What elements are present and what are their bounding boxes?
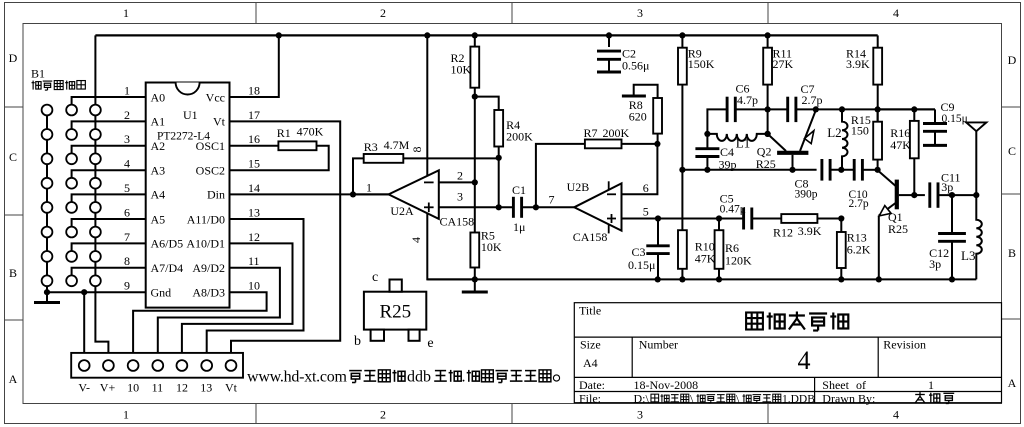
svg-text:R25: R25 [888,222,908,236]
svg-text:4: 4 [893,408,899,422]
svg-text:10K: 10K [481,240,502,254]
svg-text:0.56μ: 0.56μ [622,59,649,73]
svg-text:R25: R25 [756,157,776,171]
svg-text:6.2K: 6.2K [847,243,871,257]
resistor R5 10K [470,229,502,280]
resistor R15 150 [851,109,882,169]
wire IC pin18 Vcc to bus [230,35,279,97]
svg-text:A4: A4 [583,356,598,370]
wire R4 node down to U2A pin3 [498,158,500,208]
node U2A pin2 junction [472,179,478,185]
antenna [966,122,986,195]
svg-text:B: B [9,266,17,280]
connector B2 CT-7 [71,353,243,378]
svg-text:2: 2 [380,6,386,20]
svg-text:2: 2 [124,108,130,122]
svg-text:D:\: D:\ [634,391,650,405]
node R12/R13 junction [838,215,844,221]
inductor L2 [827,109,847,169]
IC U1 PT2272-L4 [146,83,230,308]
svg-text:1: 1 [123,6,129,20]
svg-text:7: 7 [124,230,130,244]
svg-text:6: 6 [643,181,649,195]
svg-text:11: 11 [152,381,164,395]
wire C6/C7 row [707,109,935,133]
connector B2 labels [78,381,237,395]
wire IC pin12 to B2 12 [182,243,293,365]
svg-text:C3: C3 [632,245,646,259]
svg-text:File:: File: [579,391,601,405]
svg-text:1μ: 1μ [513,220,525,234]
resistor R3 4.7M [364,138,410,163]
svg-text:.: . [462,368,466,385]
capacitor C3 0.15u [628,219,670,280]
connector B1 labels [31,67,85,91]
svg-text:2.7p: 2.7p [802,93,823,107]
svg-text:470K: 470K [297,125,324,139]
svg-text:L1: L1 [736,136,750,151]
svg-text:A7/D4: A7/D4 [151,261,184,275]
svg-text:1.DDB: 1.DDB [782,393,815,405]
svg-text:150K: 150K [688,57,715,71]
svg-text:620: 620 [629,110,647,124]
svg-text:16: 16 [248,132,260,146]
wire U2A pin2 [439,181,475,183]
resistor R8 620 [629,98,662,144]
svg-text:18-Nov-2008: 18-Nov-2008 [634,378,699,392]
resistor R10 47K [678,230,716,279]
svg-text:OSC2: OSC2 [196,164,225,178]
svg-text:5: 5 [124,181,130,195]
svg-text:of: of [856,378,866,392]
capacitor C5 0.47u [720,192,752,230]
node R6 top junction [716,215,722,221]
capacitor C2 0.56u [597,35,649,72]
svg-text:A: A [1008,376,1017,390]
wires IC pins1-8 to B1 switches [72,97,146,275]
node C1/R7 junction [533,204,539,210]
wire IC pin13 to B2 13 [207,219,304,366]
wire mid rail to C8 [682,169,816,171]
node gnd row dots [44,289,87,295]
wire R7 left vertical [536,144,585,207]
svg-text:U2B: U2B [567,180,590,194]
resistor R1 470K [277,125,324,151]
svg-text:A1: A1 [151,115,166,129]
connector B1 pin circles [42,105,101,287]
svg-text:0.15μ: 0.15μ [942,113,968,125]
svg-text:Size: Size [580,338,601,352]
wire R9 down to mid rail [681,85,683,231]
transistor Q1 R25 [878,170,915,279]
inductor L1 [707,134,767,151]
ground bar above R8 [622,85,658,98]
wire IC pin9 Gnd row [47,291,146,293]
resistor R12 3.9K [773,214,822,239]
IC U1 pin numbers [124,83,260,292]
svg-text:200K: 200K [506,130,533,144]
inductor L3 [961,195,982,279]
node bus junction dots [276,32,771,38]
svg-text:C1: C1 [512,183,526,197]
svg-text:3: 3 [637,408,643,422]
svg-text:10: 10 [248,279,260,293]
svg-text:Din: Din [207,188,225,202]
capacitor C1 1u [512,183,526,234]
svg-text:R25: R25 [380,302,412,323]
svg-text:1: 1 [124,83,130,97]
svg-text:A: A [9,372,18,386]
svg-text:L3: L3 [961,248,975,263]
svg-text:4: 4 [893,6,899,20]
svg-text:2.7p: 2.7p [849,198,869,210]
svg-text:390p: 390p [795,189,818,201]
svg-text:C: C [1008,144,1016,158]
capacitor C12 3p [929,195,966,279]
svg-text:Vt: Vt [225,381,238,395]
svg-text:120K: 120K [725,254,752,268]
svg-text:5: 5 [643,205,649,219]
svg-text:13: 13 [248,205,260,219]
svg-text:B1: B1 [31,67,45,81]
node L1 ends [704,131,770,137]
wire IC pin16 OSC1 to R1 [230,145,279,147]
watermark text [247,368,560,385]
svg-text:3: 3 [124,132,130,146]
wire C1 to U2B pin7 [522,206,575,208]
svg-text:b: b [354,334,361,349]
wire IC pin10 to B2 10 [133,292,267,365]
node pin3/R4 junction [496,204,502,210]
svg-text:13: 13 [200,381,212,395]
node R5 bottom junction [472,276,478,282]
svg-text:1: 1 [366,181,372,195]
file path CJK 自制电路\信号电路\信号电路1.DDB [651,391,815,405]
svg-text:V-: V- [78,381,90,395]
svg-text:47K: 47K [695,252,716,266]
transistor package drawing R25 [364,280,426,341]
svg-text:A9/D2: A9/D2 [192,261,225,275]
svg-text:R1: R1 [277,126,291,140]
wire C8 to C10 [830,169,854,171]
node Q1 base/R16 junction [911,192,917,198]
svg-text:1: 1 [928,378,934,392]
node antenna junction [973,192,979,198]
svg-text:Title: Title [579,304,601,318]
svg-text:4.7p: 4.7p [737,93,758,107]
node C6/C7 row junctions [765,106,918,112]
wire IC pin11 to B2 11 [158,268,280,366]
resistor R11 27K [763,35,793,84]
svg-text:12: 12 [248,230,260,244]
svg-text:47K: 47K [890,138,911,152]
svg-text:8: 8 [124,254,130,268]
svg-text:OSC1: OSC1 [196,139,225,153]
capacitor C7 2.7p [788,82,823,122]
svg-text:U2A: U2A [390,204,414,218]
wire R3 output node vertical [353,158,364,194]
svg-text:17: 17 [248,108,260,122]
wire R2-R5 vertical [474,97,476,233]
resistor R14 3.9K [846,35,882,121]
wire B1 col1 common [46,105,48,293]
svg-text:R7: R7 [584,126,598,140]
svg-text:R3: R3 [364,140,378,154]
svg-text:7: 7 [549,193,555,207]
svg-text:e: e [427,336,433,351]
svg-text:U1: U1 [183,108,198,122]
svg-text:Vt: Vt [213,115,226,129]
svg-text:3: 3 [637,6,643,20]
capacitor C9 0.15u with ground [923,100,968,145]
wire R12 to R13 node [817,218,841,220]
svg-text:8: 8 [410,147,424,153]
svg-text:11: 11 [248,254,260,268]
svg-text:B: B [1008,246,1016,260]
svg-text:D: D [9,51,18,65]
op-amp U2A CA158 [366,147,474,244]
node U2A output junction [350,191,356,197]
svg-text:150: 150 [851,124,869,138]
node bottom rail junctions [655,276,956,282]
wire Q1 base row [914,194,925,196]
wire U2A pin3 to C1 [439,206,514,208]
svg-text:3p: 3p [929,257,941,271]
svg-text:9: 9 [124,279,130,293]
svg-text:L2: L2 [827,125,841,140]
title text 遥控接收板 [746,312,848,331]
svg-text:C: C [9,150,17,164]
svg-text:27K: 27K [773,57,794,71]
wire R3 right to R4 bottom [403,157,498,159]
node C12 top junction [949,192,955,198]
svg-text:4.7M: 4.7M [384,138,410,152]
svg-text:A2: A2 [151,139,166,153]
svg-text:3.9K: 3.9K [798,224,822,238]
svg-text:R12: R12 [773,226,793,240]
svg-text:A3: A3 [151,164,166,178]
wire R1 to IC pin15 OSC2 [230,146,329,170]
wire R7 right / R8 to U2B pin6 [622,144,658,194]
svg-text:A11/D0: A11/D0 [187,212,225,226]
node mid rail junctions [789,167,880,173]
svg-text:Revision: Revision [883,338,926,352]
svg-text:www.hd-xt.com: www.hd-xt.com [247,368,348,385]
node R2 bottom junction [472,94,478,100]
wire U2A output pin1 [353,193,389,195]
svg-text:3.9K: 3.9K [846,57,870,71]
title block text [579,304,934,406]
capacitor C8 390p [795,159,831,201]
resistor R16 47K [890,109,919,195]
resistor R9 150K [678,35,715,84]
svg-text:Date:: Date: [579,378,605,392]
svg-text:4: 4 [409,237,423,243]
wire B1 common column (col3) down to B2 V+ [95,35,108,365]
svg-text:0.15μ: 0.15μ [628,258,655,272]
capacitor C11 3p [930,171,961,208]
wire U2A pin8 to bus [426,35,428,175]
svg-text:10K: 10K [451,63,472,77]
title block [574,303,1001,403]
svg-text:10: 10 [127,381,139,395]
resistor R7 200K [584,126,630,148]
svg-text:3p: 3p [941,180,953,194]
svg-text:15: 15 [248,157,260,171]
svg-text:3: 3 [457,190,463,204]
svg-text:6: 6 [124,205,130,219]
svg-text:A0: A0 [151,90,166,104]
wire Vcc top bus [95,34,877,36]
wire R11 down to Q2 collector node [767,85,769,134]
svg-text:0.47μ: 0.47μ [720,204,746,216]
capacitor C4 39p [695,134,736,172]
wire C10 to R15 node [862,169,877,171]
svg-text:A10/D1: A10/D1 [186,237,225,251]
svg-text:A6/D5: A6/D5 [151,237,184,251]
wire C11 to antenna node [938,194,976,196]
ground under R5 [462,279,488,292]
node Q2 collector junction [765,131,771,137]
wire R15 node to R16/C9 [878,108,935,110]
wire U2B pin5 row [622,218,745,220]
svg-text:14: 14 [248,181,260,195]
svg-text:2: 2 [457,169,463,183]
svg-text:A4: A4 [151,188,166,202]
node C4 bottom junction [704,167,710,173]
wire B2 V- to gnd row [83,292,85,365]
node R7/R8 junction [654,141,660,147]
resistor R6 120K [715,219,752,280]
op-amp U2B CA158 [549,180,649,244]
svg-text:Gnd: Gnd [151,286,172,300]
wire U2A pin4 to ground rail [427,213,475,279]
svg-text:c: c [372,270,378,285]
svg-text:1: 1 [123,408,129,422]
drawn-by name 李焕民 [915,392,954,403]
node C3 top junction [655,215,661,221]
svg-text:Vcc: Vcc [206,90,225,104]
svg-text:4: 4 [798,346,811,375]
capacitor C6 4.7p [727,82,758,123]
wire C5 to R12 [752,218,782,220]
wire R2/R4 jog [475,97,499,110]
ground B1 [34,292,60,302]
svg-text:12: 12 [176,381,188,395]
wire bottom ground rail [427,278,976,280]
node R4 bottom junction [496,155,502,161]
wire IC pin17 Vt to B2 Vt [230,121,341,365]
svg-text:4: 4 [124,157,130,171]
svg-text:Number: Number [639,338,678,352]
svg-text:ddb: ddb [407,368,431,385]
svg-text:Drawn By:: Drawn By: [822,391,875,405]
svg-text:2: 2 [380,408,386,422]
svg-text:200K: 200K [603,126,630,140]
svg-text:CA158: CA158 [573,230,608,244]
wire IC pin14 Din to U2A output node [230,193,389,195]
svg-text:V+: V+ [100,381,116,395]
svg-text:Sheet: Sheet [822,378,849,392]
svg-text:CA158: CA158 [440,215,475,229]
svg-text:A5: A5 [151,212,166,226]
capacitor C10 2.7p [849,159,869,210]
node R9/C4 rail junction [679,167,685,173]
svg-text:18: 18 [248,83,260,97]
resistor R2 10K [451,35,480,96]
svg-text:A8/D3: A8/D3 [192,286,225,300]
resistor R4 200K [494,110,533,158]
resistor R13 6.2K [837,219,871,280]
transistor Q2 R25 [756,110,816,171]
svg-text:C9: C9 [941,100,955,114]
svg-text:D: D [1008,53,1017,67]
